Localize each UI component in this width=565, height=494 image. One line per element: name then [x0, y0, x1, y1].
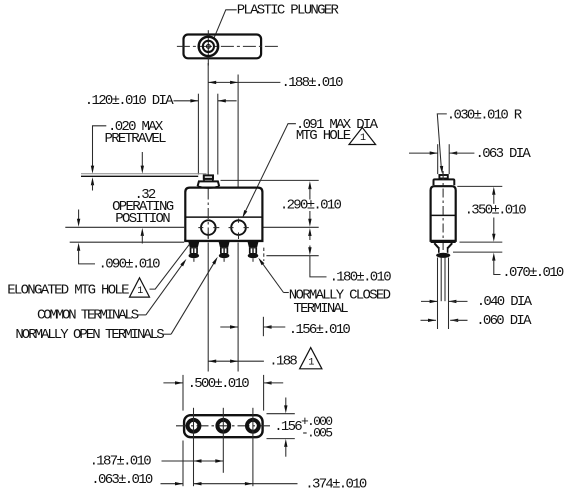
flag note triangle 1 (elongated): [130, 278, 150, 297]
svg-text:PLASTIC PLUNGER: PLASTIC PLUNGER: [237, 2, 340, 18]
top view horizontal centerline: [177, 45, 278, 47]
front view plunger cap: [204, 175, 213, 178]
svg-text:1: 1: [360, 133, 366, 144]
svg-text:1: 1: [137, 286, 143, 297]
leader .030 R: [437, 114, 447, 174]
leader .091 mtg hole: [245, 124, 296, 213]
dimension .350±.010: [457, 186, 526, 242]
plunger inner circle (top view): [207, 45, 211, 49]
dimension .060 DIA: [421, 313, 533, 329]
svg-text:.063 DIA: .063 DIA: [476, 146, 532, 162]
dimension .290±.010: [221, 180, 342, 226]
svg-text:.188±.010: .188±.010: [282, 75, 344, 91]
front view plunger flange: [198, 181, 220, 186]
extension body right edge (dashed): [263, 248, 265, 261]
label .091 MAX DIA MTG HOLE: [296, 117, 379, 144]
svg-text:.500±.010: .500±.010: [188, 376, 250, 392]
right mounting hole: [231, 220, 246, 235]
flag note triangle 1 (mtg hole): [349, 128, 376, 145]
front view division line: [185, 216, 262, 218]
front view body bottom edge: [184, 240, 263, 242]
svg-text:.040 DIA: .040 DIA: [477, 294, 533, 310]
svg-text:TERMINAL: TERMINAL: [293, 301, 348, 317]
svg-text:.156±.010: .156±.010: [289, 322, 351, 338]
svg-text:POSITION: POSITION: [115, 211, 170, 227]
bottom terminal hole 1: [188, 420, 200, 432]
left mounting hole: [201, 220, 216, 235]
arrowhead .020 down: [91, 166, 94, 174]
label NORMALLY CLOSED TERMINAL: [289, 288, 391, 317]
leader bracket .020: [93, 126, 107, 167]
terminal 3 (normally closed): [248, 242, 259, 262]
pretravel line: [81, 175, 198, 177]
bottom view vertical centerline ticks: [194, 408, 253, 486]
side view neck: [431, 242, 456, 253]
svg-text:.063±.010: .063±.010: [91, 472, 153, 488]
side view plunger cap: [439, 175, 447, 179]
extension line plunger center: [207, 63, 209, 175]
leader common terminals: [137, 259, 187, 315]
svg-text:ELONGATED MTG HOLE: ELONGATED MTG HOLE: [7, 283, 129, 299]
front view plunger mid: [204, 179, 213, 181]
leader PLASTIC PLUNGER: [214, 10, 237, 38]
mounting plane line left: [70, 241, 185, 243]
leader normally closed terminal: [258, 258, 289, 293]
dimension .120±.010 DIA: [85, 93, 237, 109]
front view plunger boot arc: [198, 186, 220, 188]
svg-text:.180±.010: .180±.010: [330, 269, 392, 285]
svg-text:PRETRAVEL: PRETRAVEL: [105, 131, 167, 147]
svg-text:.188: .188: [269, 354, 297, 370]
svg-text:.187±.010: .187±.010: [90, 453, 152, 469]
dimension .187±.010: [90, 453, 224, 469]
svg-text:.156: .156: [274, 419, 302, 435]
free position line (gray): [81, 173, 207, 175]
svg-text:.030±.010 R: .030±.010 R: [447, 108, 523, 124]
plunger outer circle (top view): [199, 37, 218, 56]
dimension .040 DIA: [421, 294, 533, 310]
side view terminal wires: [438, 258, 449, 330]
dimension .070±.010: [453, 252, 564, 281]
svg-text:COMMON TERMINALS: COMMON TERMINALS: [37, 308, 139, 324]
svg-text:.070±.010: .070±.010: [502, 265, 564, 281]
leader elongated mtg hole: [150, 244, 190, 289]
dimension .156±.010 (terminal to edge): [220, 317, 350, 338]
dimension .063 DIA: [409, 146, 531, 162]
terminal 1 (common): [188, 242, 199, 262]
top view housing: [184, 35, 262, 59]
dimension .188 (hole spacing): [208, 354, 297, 370]
svg-text:.290±.010: .290±.010: [280, 198, 342, 214]
svg-text:MTG HOLE: MTG HOLE: [296, 128, 351, 144]
dimension .374±.010: [194, 477, 367, 493]
side view centerline: [442, 171, 444, 252]
bottom terminal hole 2: [217, 420, 229, 432]
leader normally open terminals: [162, 257, 218, 334]
bottom terminal hole 3: [247, 420, 259, 432]
arrowhead leader .091: [242, 210, 247, 218]
svg-text:NORMALLY OPEN TERMINALS: NORMALLY OPEN TERMINALS: [15, 327, 164, 343]
front view body: [185, 188, 262, 241]
svg-text:1: 1: [308, 357, 314, 368]
label .32 OPERATING POSITION: [112, 187, 174, 227]
dimension .063±.010: [91, 472, 183, 488]
label .020 MAX PRETRAVEL: [105, 119, 167, 147]
hole centerline ticks: [198, 219, 249, 239]
bottom view horizontal centerline: [176, 425, 270, 427]
dimension .156 +.000 -.005: [267, 398, 333, 457]
svg-text:.374±.010: .374±.010: [305, 477, 367, 493]
dimension .500±.010: [163, 375, 283, 411]
svg-text:.120±.010 DIA: .120±.010 DIA: [85, 93, 174, 109]
side view o-ring: [436, 253, 450, 258]
top view vertical centerline: [207, 30, 209, 65]
extension line right mounting hole: [237, 75, 239, 187]
svg-text:.350±.010: .350±.010: [465, 203, 527, 219]
dimension .188±.010 (top): [208, 75, 343, 91]
bottom view housing: [184, 415, 263, 437]
extension line plunger right edge: [217, 94, 219, 175]
plunger middle circle (top view): [203, 41, 214, 52]
extension rect left edge down: [182, 441, 184, 487]
flag note triangle 1 (.188): [300, 348, 322, 369]
extension lines side plunger: [438, 144, 450, 174]
svg-text:.060 DIA: .060 DIA: [476, 313, 532, 329]
extension line plunger left edge: [197, 94, 199, 175]
dimension .180±.010: [266, 228, 391, 285]
dimension .32 operating position arrows: [141, 152, 144, 244]
terminal 2 (normally open): [219, 242, 230, 262]
front view centerline (dash-dot): [207, 189, 209, 241]
side view body: [431, 186, 456, 241]
extension line hole2 down: [237, 243, 239, 372]
arrowhead .020 up: [91, 177, 94, 190]
operating position line left: [65, 226, 184, 228]
dimension .090 arrows: [77, 210, 95, 264]
extension line hole1 down: [207, 243, 209, 372]
svg-text:-.005: -.005: [301, 426, 332, 441]
side view plunger flange: [434, 179, 455, 185]
svg-text:.090±.010: .090±.010: [99, 256, 161, 272]
operating position line right: [264, 226, 319, 228]
side view division line: [431, 214, 456, 216]
